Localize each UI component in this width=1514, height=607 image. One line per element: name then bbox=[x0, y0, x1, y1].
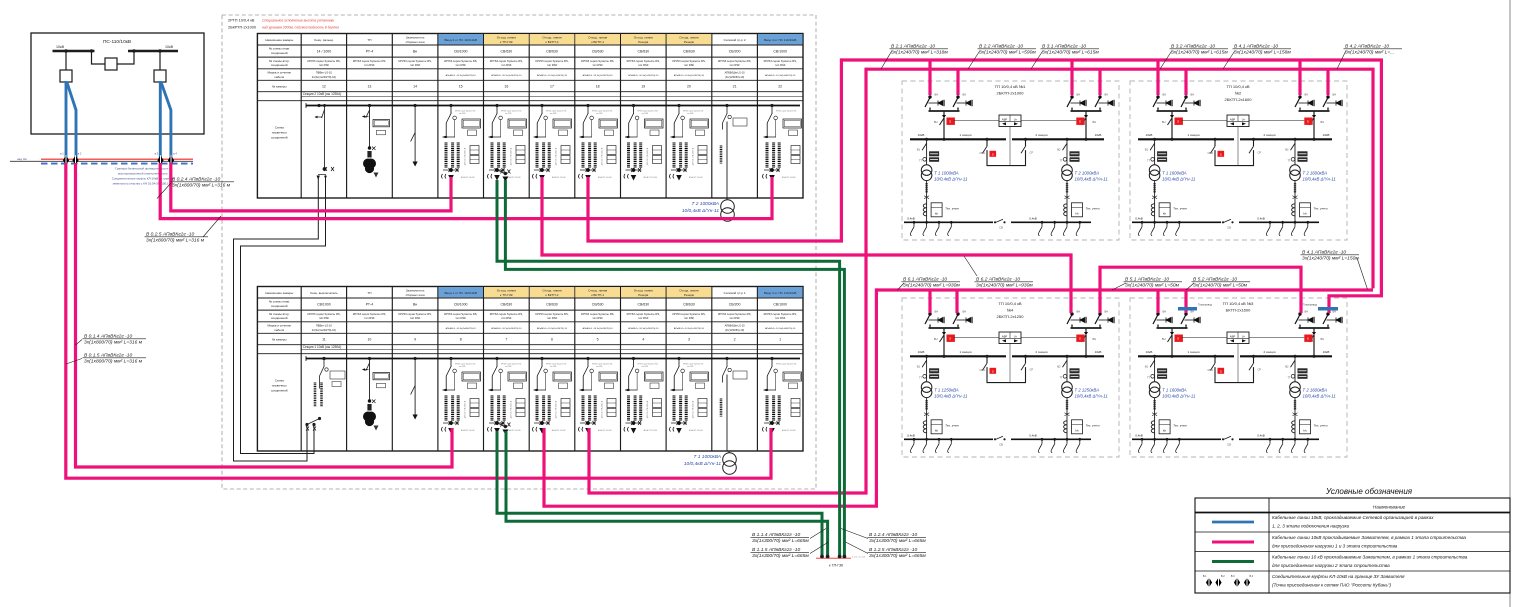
power transformer feeder cell section 1 bbox=[726, 357, 729, 360]
svg-text:КРУ63 серии Systeme RS,: КРУ63 серии Systeme RS, bbox=[535, 59, 568, 63]
joint muff В.1 (connection point) bbox=[63, 155, 69, 165]
svg-text:АВР: АВР bbox=[1002, 117, 1008, 121]
svg-text:ВН: ВН bbox=[1105, 93, 1109, 97]
svg-text:ДЕЛ-10 4 ТА 300-5 А: ДЕЛ-10 4 ТА 300-5 А bbox=[510, 400, 513, 418]
svg-text:в.4: в.4 bbox=[173, 152, 177, 156]
svg-text:к ТП-ГЗК: к ТП-ГЗК bbox=[829, 564, 844, 568]
svg-text:1 секция: 1 секция bbox=[1187, 350, 1199, 354]
svg-text:КРУ63 серии Systeme RS,: КРУ63 серии Systeme RS, bbox=[535, 312, 568, 316]
svg-text:ДЕЛ-10 4 ТА 300-5 А: ДЕЛ-10 4 ТА 300-5 А bbox=[601, 400, 604, 418]
switchgear cell Резерв 2 section 1 bbox=[670, 357, 709, 433]
0.4kV busbars with feeders bbox=[1132, 438, 1221, 440]
svg-text:S: S bbox=[1220, 370, 1222, 374]
svg-text:12: 12 bbox=[322, 85, 326, 89]
svg-text:S: S bbox=[1307, 119, 1309, 123]
svg-text:3х(1х240/70) мм² L=615м: 3х(1х240/70) мм² L=615м bbox=[1171, 50, 1228, 56]
svg-text:СВ/200: СВ/200 bbox=[729, 50, 741, 54]
svg-text:ДЕЛ-10 4 ТА 300-5 А: ДЕЛ-10 4 ТА 300-5 А bbox=[692, 147, 695, 165]
svg-text:тип RSF: тип RSF bbox=[596, 113, 602, 115]
svg-text:тип RSF: тип RSF bbox=[684, 316, 695, 320]
svg-text:КРУ63 серии Systeme RS,: КРУ63 серии Systeme RS, bbox=[764, 59, 797, 63]
bus 10kV sections bbox=[910, 355, 1006, 357]
substation box ТП 10/0,4 кВ №1 bbox=[902, 81, 1119, 240]
svg-text:В1: В1 bbox=[917, 147, 921, 151]
svg-text:ВН: ВН bbox=[1321, 337, 1325, 341]
svg-text:10/0,4кВ Δ/Yн-11: 10/0,4кВ Δ/Yн-11 bbox=[1075, 393, 1109, 398]
pink top run A y=60 bbox=[841, 60, 1381, 313]
svg-text:АПвВКг2г -10 3х(1х240/70)-10: АПвВКг2г -10 3х(1х240/70)-10 bbox=[628, 327, 659, 330]
green cable В 1.2.4 (upper ТП-ГЗК) bbox=[505, 180, 844, 555]
svg-text:Токопровод: Токопровод bbox=[1198, 303, 1212, 307]
label В 4.2 bbox=[1337, 51, 1346, 70]
switch pair links and ВН disconnectors bbox=[1157, 108, 1159, 111]
svg-text:22: 22 bbox=[778, 85, 782, 89]
svg-text:Марка и сечение: Марка и сечение bbox=[268, 71, 292, 75]
svg-text:Т 2 1000кВА: Т 2 1000кВА bbox=[692, 201, 719, 207]
svg-text:КРУ63 серии Systeme RS,: КРУ63 серии Systeme RS, bbox=[581, 312, 614, 316]
pink drops to ТП№1 switches bbox=[928, 60, 931, 95]
svg-text:10/0,4кВ Δ/Yн-11: 10/0,4кВ Δ/Yн-11 bbox=[1303, 393, 1337, 398]
svg-text:S: S bbox=[949, 336, 951, 340]
svg-text:№2: №2 bbox=[1235, 90, 1242, 95]
svg-text:ВН: ВН bbox=[1093, 120, 1097, 124]
svg-text:0,4кВ: 0,4кВ bbox=[1029, 217, 1036, 221]
svg-text:СР: СР bbox=[1030, 367, 1034, 371]
svg-text:19: 19 bbox=[641, 85, 645, 89]
svg-text:S: S bbox=[992, 153, 994, 157]
label В 0.1.4 bbox=[76, 340, 82, 346]
svg-text:к ТП-ГЗК: к ТП-ГЗК bbox=[500, 293, 513, 297]
svg-text:14: 14 bbox=[413, 85, 417, 89]
svg-text:Соединительные муфты КЛ-10кВ н: Соединительные муфты КЛ-10кВ на границе bbox=[112, 177, 175, 181]
svg-text:Ввод 4 от ПС 110/10кВ: Ввод 4 от ПС 110/10кВ bbox=[764, 38, 796, 42]
svg-text:КРУ63 серии Systeme RS,: КРУ63 серии Systeme RS, bbox=[444, 312, 477, 316]
svg-text:КРУ63 серии Systeme RS,: КРУ63 серии Systeme RS, bbox=[398, 59, 431, 63]
joint muff В.2 (connection point) bbox=[72, 155, 78, 165]
svg-text:АВР: АВР bbox=[1230, 334, 1236, 338]
svg-text:3х(1х240/70) мм² L=158м: 3х(1х240/70) мм² L=158м bbox=[1234, 50, 1291, 56]
svg-text:АПвВКг2г -10 3х(1х240/70)-10: АПвВКг2г -10 3х(1х240/70)-10 bbox=[628, 74, 659, 77]
earthing switch cell section 1 bbox=[411, 357, 418, 419]
svg-text:Схема: Схема bbox=[275, 126, 284, 130]
svg-text:20: 20 bbox=[687, 85, 691, 89]
svg-text:0,4кВ: 0,4кВ bbox=[1029, 434, 1036, 438]
bus 10kV sections bbox=[910, 138, 1006, 140]
switchgear table section 2 frame bbox=[257, 34, 803, 199]
Токопровод bar over cable ТП3 left bbox=[1178, 307, 1197, 310]
svg-text:S: S bbox=[992, 370, 994, 374]
svg-text:КРУ63 серии Systeme RS,: КРУ63 серии Systeme RS, bbox=[490, 312, 523, 316]
svg-text:9: 9 bbox=[414, 338, 416, 342]
svg-text:10кВ: 10кВ bbox=[918, 350, 925, 354]
svg-text:тип RSF: тип RSF bbox=[550, 366, 556, 368]
svg-text:АПвВКг2г -10 3х(1х800/70)-10: АПвВКг2г -10 3х(1х800/70)-10 bbox=[446, 327, 477, 330]
svg-text:1: 1 bbox=[779, 338, 781, 342]
svg-text:СР: СР bbox=[1258, 367, 1262, 371]
svg-text:17: 17 bbox=[550, 85, 554, 89]
svg-text:Условные обозначения: Условные обозначения bbox=[1325, 487, 1413, 496]
label В 0.2.5 bbox=[203, 216, 221, 237]
svg-text:Резерв: Резерв bbox=[638, 293, 648, 297]
svg-text:Отход. линия: Отход. линия bbox=[679, 289, 698, 293]
transformer feeders В1/В2 bbox=[1154, 356, 1156, 382]
svg-text:3х(1х240/70) мм² L=930м: 3х(1х240/70) мм² L=930м bbox=[903, 283, 960, 289]
transformer feeders В1/В2 bbox=[926, 356, 928, 382]
svg-text:соединений: соединений bbox=[271, 389, 288, 393]
svg-text:Тех. учет: Тех. учет bbox=[1173, 206, 1187, 210]
svg-text:В2: В2 bbox=[1057, 364, 1061, 368]
switchgear cell ТП-ГЗК section 1 bbox=[488, 357, 527, 433]
svg-text:АВР: АВР bbox=[1002, 334, 1008, 338]
svg-text:В2: В2 bbox=[1285, 147, 1289, 151]
svg-text:10/0,4кВ Δ/Yн-11: 10/0,4кВ Δ/Yн-11 bbox=[1162, 176, 1196, 181]
svg-text:Секция 2 10кВ (сш 1250А): Секция 2 10кВ (сш 1250А) bbox=[303, 92, 342, 96]
svg-text:Тех. учет: Тех. учет bbox=[1086, 206, 1100, 210]
svg-text:тип RSF: тип RSF bbox=[775, 63, 786, 67]
svg-text:СВН: СВН bbox=[1208, 368, 1214, 372]
switchgear table section 1 frame bbox=[257, 287, 803, 452]
svg-text:ВН: ВН bbox=[963, 93, 967, 97]
svg-text:ДЕЛ-10 4 ТА 300-5 А: ДЕЛ-10 4 ТА 300-5 А bbox=[601, 147, 604, 165]
sheet right border bbox=[1509, 0, 1511, 607]
svg-text:2: 2 bbox=[734, 338, 736, 342]
svg-text:ВН: ВН bbox=[1163, 93, 1167, 97]
svg-text:3х(1х800/70) мм² L=316 м: 3х(1х800/70) мм² L=316 м bbox=[172, 183, 231, 189]
svg-text:U<: U< bbox=[1014, 334, 1018, 338]
svg-text:АПвВ КТ-10-240: АПвВ КТ-10-240 bbox=[644, 176, 657, 179]
svg-text:ДЕЛ-10 4 ТА 300-5 А: ДЕЛ-10 4 ТА 300-5 А bbox=[646, 147, 649, 165]
cable КЛ-10кВ В 0.2.4 (pink, ПС В.4 → Ввод 2) bbox=[171, 163, 451, 211]
svg-text:АПвВ КТ-10-240: АПвВ КТ-10-240 bbox=[461, 176, 474, 179]
svg-text:для присоединения нагрузки 1 и: для присоединения нагрузки 1 и 3 этапа с… bbox=[1272, 544, 1398, 549]
svg-text:№4: №4 bbox=[1007, 307, 1014, 312]
svg-text:СВ/630: СВ/630 bbox=[683, 50, 695, 54]
legend blue cable symbol bbox=[1212, 521, 1254, 524]
bus 10kV sections bbox=[1138, 355, 1234, 357]
svg-text:РТ-4: РТ-4 bbox=[366, 50, 373, 54]
svg-text:СР: СР bbox=[1030, 150, 1034, 154]
label В 3.1 bbox=[1031, 51, 1043, 70]
svg-text:U<: U< bbox=[1242, 117, 1246, 121]
svg-text:15: 15 bbox=[459, 85, 463, 89]
svg-text:АПвВКг2г -10 3х(1х240/70)-10: АПвВКг2г -10 3х(1х240/70)-10 bbox=[491, 327, 522, 330]
svg-text:Отход. линия: Отход. линия bbox=[588, 36, 607, 40]
svg-text:соединений: соединений bbox=[271, 136, 288, 140]
svg-text:тип RSF: тип RSF bbox=[410, 316, 421, 320]
svg-text:СВ/1000: СВ/1000 bbox=[454, 303, 468, 307]
svg-text:kh: kh bbox=[1075, 211, 1079, 215]
svg-text:СВ/1000: СВ/1000 bbox=[773, 303, 787, 307]
svg-text:10/0,4кВ Δ/Yн-11: 10/0,4кВ Δ/Yн-11 bbox=[1075, 176, 1109, 181]
green cable В 1.2.5 (lower ТП-ГЗК) bbox=[506, 431, 828, 555]
svg-text:ДЕЛ-10 4 ТА 300-5 А: ДЕЛ-10 4 ТА 300-5 А bbox=[692, 400, 695, 418]
svg-text:Назначение камеры: Назначение камеры bbox=[265, 291, 293, 295]
svg-text:тип RSF: тип RSF bbox=[455, 316, 466, 320]
svg-text:S: S bbox=[1177, 336, 1179, 340]
svg-text:АПВБбШв-LS-10: АПВБбШв-LS-10 bbox=[725, 71, 746, 75]
svg-text:3х(1х240/70) мм² L=150м: 3х(1х240/70) мм² L=150м bbox=[1302, 256, 1359, 262]
svg-text:11: 11 bbox=[322, 338, 326, 342]
svg-text:ВН: ВН bbox=[1105, 310, 1109, 314]
pink drops to ТП№3 left switches bbox=[1156, 290, 1159, 313]
svg-text:АПвВКг2г -10 3х(1х240/70)-10: АПвВКг2г -10 3х(1х240/70)-10 bbox=[537, 74, 568, 77]
svg-text:0,4кВ: 0,4кВ bbox=[907, 434, 914, 438]
svg-text:0,4кВ: 0,4кВ bbox=[1257, 434, 1264, 438]
svg-text:Ввод 3 от ПС 110/10кВ: Ввод 3 от ПС 110/10кВ bbox=[764, 291, 796, 295]
svg-text:тип RSF: тип RSF bbox=[687, 113, 693, 115]
svg-text:СВ/630: СВ/630 bbox=[683, 303, 695, 307]
svg-text:0,4кВ: 0,4кВ bbox=[1135, 434, 1142, 438]
svg-text:Отход. линия: Отход. линия bbox=[588, 289, 607, 293]
svg-text:КРУ63 серии Systeme RS,: КРУ63 серии Systeme RS, bbox=[718, 59, 751, 63]
svg-text:3х(1х240/70) мм² L=318м: 3х(1х240/70) мм² L=318м bbox=[891, 50, 948, 56]
svg-text:ДЕЛ-10 4 ТА 300-5 А: ДЕЛ-10 4 ТА 300-5 А bbox=[464, 400, 467, 418]
voltage transformer cell ТН section 2 bbox=[362, 104, 390, 177]
svg-text:Т 2 1600кВА: Т 2 1600кВА bbox=[1303, 387, 1328, 392]
svg-text:21: 21 bbox=[733, 85, 737, 89]
svg-text:тип RSF: тип RSF bbox=[638, 63, 649, 67]
cell Ввод (right) section 1 bbox=[763, 357, 802, 433]
svg-text:10кВ: 10кВ bbox=[1095, 133, 1102, 137]
svg-text:АПвВ КТ-10-240: АПвВ КТ-10-240 bbox=[552, 176, 565, 179]
svg-text:АПвВ КТ-10-240: АПвВ КТ-10-240 bbox=[507, 429, 520, 432]
svg-text:1 секция: 1 секция bbox=[959, 350, 971, 354]
svg-text:ВН: ВН bbox=[1162, 120, 1166, 124]
svg-text:к БКТП-1: к БКТП-1 bbox=[591, 40, 604, 44]
svg-text:kh: kh bbox=[1303, 211, 1307, 215]
svg-text:ВН: ВН bbox=[1191, 93, 1195, 97]
label В 3.2 bbox=[1160, 51, 1172, 70]
section breaker cell Секц.выключатель (cam.11) bbox=[322, 357, 325, 360]
label В 0.2.4 bbox=[157, 183, 171, 199]
land plot boundary black line bbox=[10, 160, 193, 162]
svg-text:7: 7 bbox=[505, 338, 507, 342]
svg-text:КРУ63 серии Systeme RS,: КРУ63 серии Systeme RS, bbox=[672, 312, 705, 316]
svg-text:ВН: ВН bbox=[935, 93, 939, 97]
svg-text:4 отв. по 100: 4 отв. по 100 bbox=[852, 557, 866, 559]
transformer feeders В1/В2 bbox=[1154, 139, 1156, 165]
svg-text:ВН: ВН bbox=[1162, 337, 1166, 341]
svg-text:СВН: СВН bbox=[980, 151, 986, 155]
cable 10kV blue В.1 bbox=[65, 81, 68, 158]
legend green cable symbol bbox=[1212, 560, 1254, 563]
bus tie СВН-СР loop bbox=[1215, 139, 1254, 165]
svg-text:Т 1 1000кВА: Т 1 1000кВА bbox=[934, 170, 959, 175]
svg-text:ВН: ВН bbox=[1093, 337, 1097, 341]
svg-text:кабеля: кабеля bbox=[274, 328, 284, 332]
main busbar 10kV section 2 bbox=[306, 105, 800, 107]
svg-text:10кВ: 10кВ bbox=[165, 45, 174, 49]
svg-text:тип RSF: тип RSF bbox=[592, 63, 603, 67]
svg-text:тип RSF: тип RSF bbox=[459, 366, 465, 368]
svg-text:СВ: СВ bbox=[999, 225, 1003, 229]
svg-text:Граница балансовой принадлежно: Граница балансовой принадлежности и bbox=[115, 167, 171, 171]
svg-text:3х(1х240/70) мм² L=50м: 3х(1х240/70) мм² L=50м bbox=[1125, 283, 1180, 289]
svg-text:Тех. учет: Тех. учет bbox=[1314, 423, 1328, 427]
svg-text:тип RSF: тип RSF bbox=[550, 113, 556, 115]
cable КЛ-10кВ В 0.2.5 (pink, ПС В.3 → Ввод 4) bbox=[160, 163, 772, 219]
power transformer feeder cell section 2 bbox=[726, 104, 729, 107]
svg-text:2 секция: 2 секция bbox=[1263, 133, 1275, 137]
svg-text:АПвВКг2г -10 3х(1х240/70)-10: АПвВКг2г -10 3х(1х240/70)-10 bbox=[674, 74, 705, 77]
svg-text:kh: kh bbox=[935, 428, 939, 432]
svg-text:kh: kh bbox=[1163, 428, 1167, 432]
cable 10kV blue В.3 bbox=[159, 81, 162, 158]
svg-text:Заземлитель: Заземлитель bbox=[406, 289, 425, 293]
svg-text:3х(1х240/70) мм² L=930м: 3х(1х240/70) мм² L=930м bbox=[976, 283, 1033, 289]
svg-text:КРУ63 серии Systeme RS,: КРУ63 серии Systeme RS, bbox=[307, 59, 340, 63]
svg-text:2РТП 10/0,4 кВ: 2РТП 10/0,4 кВ bbox=[228, 19, 255, 23]
АВР automatic transfer box bbox=[999, 115, 1021, 127]
label В 1.2.4 bbox=[841, 529, 868, 539]
svg-text:Отход. линия: Отход. линия bbox=[634, 289, 653, 293]
svg-text:kh: kh bbox=[1163, 211, 1167, 215]
svg-text:Тех. учет: Тех. учет bbox=[1314, 206, 1328, 210]
label В 4.1 (150м) bbox=[1357, 258, 1367, 289]
svg-text:СР: СР bbox=[1258, 150, 1262, 154]
bus tie СВН-СР loop bbox=[1215, 356, 1254, 382]
svg-text:Отход. линия: Отход. линия bbox=[497, 36, 516, 40]
svg-text:В2: В2 bbox=[1285, 364, 1289, 368]
svg-text:3х(1х300/70) мм² L=665м: 3х(1х300/70) мм² L=665м bbox=[752, 538, 809, 544]
svg-text:Т 1 1250кВА: Т 1 1250кВА bbox=[934, 387, 959, 392]
svg-text:тип RSF: тип RSF bbox=[364, 63, 375, 67]
svg-text:10/0,4кВ Δ/Yн-11: 10/0,4кВ Δ/Yн-11 bbox=[684, 461, 721, 467]
svg-text:Марка и сечение: Марка и сечение bbox=[268, 324, 292, 328]
svg-text:СВ/1000: СВ/1000 bbox=[317, 303, 331, 307]
pink top run B y=69 bbox=[866, 69, 1373, 288]
svg-text:ТП 10/0,4 кВ №3: ТП 10/0,4 кВ №3 bbox=[1223, 301, 1254, 306]
svg-text:Т 2 1000кВА: Т 2 1000кВА bbox=[1075, 170, 1100, 175]
svg-text:В1: В1 bbox=[1145, 364, 1149, 368]
bus tie wire A between sections bbox=[234, 176, 319, 461]
substation ПС-110/10кВ outline bbox=[31, 33, 204, 134]
svg-text:Т 1 1000кВА: Т 1 1000кВА bbox=[694, 454, 721, 460]
svg-text:СВ/630: СВ/630 bbox=[637, 303, 649, 307]
incoming switches with arresters bbox=[925, 312, 944, 326]
svg-text:тип RSF: тип RSF bbox=[642, 366, 648, 368]
АВР automatic transfer box bbox=[999, 332, 1021, 344]
svg-text:Резерв: Резерв bbox=[638, 40, 648, 44]
svg-text:КРУ63 серии Systeme RS,: КРУ63 серии Systeme RS, bbox=[353, 312, 386, 316]
svg-text:АПвВКг2г -10 3х(1х240/70)-10: АПвВКг2г -10 3х(1х240/70)-10 bbox=[491, 74, 522, 77]
switchgear cell БКТП-4 section 2 bbox=[533, 104, 572, 180]
bus tie wire B between sections bbox=[241, 176, 326, 454]
svg-text:БКТП-2х1600: БКТП-2х1600 bbox=[1226, 307, 1252, 312]
svg-text:Кабельные линии 10кВ прокладыв: Кабельные линии 10кВ прокладываемые Заяв… bbox=[1272, 535, 1466, 540]
svg-text:к БКТП-4: к БКТП-4 bbox=[546, 293, 559, 297]
svg-text:10кВ: 10кВ bbox=[1146, 350, 1153, 354]
svg-text:3х(1х300/70) мм² L=665м: 3х(1х300/70) мм² L=665м bbox=[869, 538, 926, 544]
svg-text:тип RSF: тип RSF bbox=[642, 113, 648, 115]
label В 1.2.5 bbox=[846, 542, 869, 554]
joint muff В.3 (connection point) bbox=[157, 155, 163, 165]
svg-text:АПвВ КТ-10-800: АПвВ КТ-10-800 bbox=[782, 176, 795, 179]
svg-text:2 секция: 2 секция bbox=[1035, 133, 1047, 137]
svg-text:kh: kh bbox=[935, 211, 939, 215]
svg-text:10/0,4кВ Δ/Yн-11: 10/0,4кВ Δ/Yн-11 bbox=[934, 393, 968, 398]
label В 1.1.4 bbox=[810, 529, 826, 539]
svg-text:3х(1х800/70) мм² L=316 м: 3х(1х800/70) мм² L=316 м bbox=[146, 238, 205, 244]
svg-text:10кВ: 10кВ bbox=[1323, 350, 1330, 354]
svg-text:№ камеры: № камеры bbox=[272, 85, 287, 89]
svg-text:2БКРТП-2х1000: 2БКРТП-2х1000 bbox=[228, 26, 256, 30]
svg-text:ВН: ВН bbox=[1333, 93, 1337, 97]
svg-text:СВ: СВ bbox=[1227, 225, 1231, 229]
svg-text:Силовой тр-р 1: Силовой тр-р 1 bbox=[724, 291, 746, 295]
switchgear cell БКТП-1 section 1 bbox=[579, 357, 618, 433]
pink drops to ТП№2 switches bbox=[1156, 60, 1159, 95]
svg-text:тип RSF: тип RSF bbox=[547, 63, 558, 67]
svg-text:ТН: ТН bbox=[367, 38, 371, 42]
svg-text:над 3м: над 3м bbox=[17, 157, 27, 161]
svg-text:0,4кВ: 0,4кВ bbox=[1257, 217, 1264, 221]
svg-text:1 секция: 1 секция bbox=[959, 133, 971, 137]
svg-text:СВ/630: СВ/630 bbox=[501, 303, 513, 307]
svg-text:3х(1х300/70) мм² L=665м: 3х(1х300/70) мм² L=665м bbox=[752, 553, 809, 559]
svg-text:к БКТП-4: к БКТП-4 bbox=[546, 40, 559, 44]
svg-text:ВН: ВН bbox=[963, 310, 967, 314]
svg-text:КРУ63 серии Systeme RS,: КРУ63 серии Systeme RS, bbox=[490, 59, 523, 63]
svg-text:КРУ63 серии Systeme RS,: КРУ63 серии Systeme RS, bbox=[718, 312, 751, 316]
earthing switch cell section 2 bbox=[411, 104, 418, 166]
substation box ТП 10/0,4 кВ №3 bbox=[1130, 298, 1347, 457]
switchgear cell БКТП-4 section 1 bbox=[533, 357, 572, 433]
svg-text:ДЕЛ-10 4 ТА 300-5 А: ДЕЛ-10 4 ТА 300-5 А bbox=[510, 147, 513, 165]
svg-text:КРУ63 серии Systeme RS,: КРУ63 серии Systeme RS, bbox=[764, 312, 797, 316]
svg-text:3х(1х240/70) мм² L=615м: 3х(1х240/70) мм² L=615м bbox=[1042, 50, 1099, 56]
svg-text:тип RSF: тип RSF bbox=[547, 316, 558, 320]
svg-text:Ввод 2 от ПС 110/10кВ: Ввод 2 от ПС 110/10кВ bbox=[444, 38, 476, 42]
bus section label Секция 1 10кВ (сш 1250А) bbox=[301, 349, 803, 351]
svg-text:СВ/630: СВ/630 bbox=[546, 303, 558, 307]
svg-text:тип RSF: тип RSF bbox=[729, 316, 740, 320]
svg-text:земельного участка с КН 01:04:: земельного участка с КН 01:04:5901001:31… bbox=[112, 182, 173, 186]
second cable tail on ТП-ГЗК cell section 2 bbox=[500, 170, 510, 174]
svg-text:2 секция: 2 секция bbox=[1035, 350, 1047, 354]
svg-text:АПвВ КТ-10-800: АПвВ КТ-10-800 bbox=[782, 429, 795, 432]
svg-text:АПвВКг2г -10 3х(1х800/70)-10: АПвВКг2г -10 3х(1х800/70)-10 bbox=[765, 74, 796, 77]
svg-text:КРУ63 серии Systeme RS,: КРУ63 серии Systeme RS, bbox=[307, 312, 340, 316]
svg-text:S: S bbox=[1177, 119, 1179, 123]
svg-text:S: S bbox=[1220, 153, 1222, 157]
cable 10kV blue В.2 bbox=[67, 82, 76, 158]
svg-text:ВН: ВН bbox=[1077, 310, 1081, 314]
legend pink cable symbol bbox=[1212, 541, 1254, 544]
svg-text:КРУ63 серии Systeme RS,: КРУ63 серии Systeme RS, bbox=[581, 59, 614, 63]
breaker В3/В4 feeder square right bbox=[159, 51, 161, 70]
svg-text:АПвВ КТ-10-240: АПвВ КТ-10-240 bbox=[644, 429, 657, 432]
svg-text:над уровнем 2000м, сейсмостойк: над уровнем 2000м, сейсмостойкость 8 бал… bbox=[262, 26, 339, 30]
svg-text:АПвВ КТ-10-240: АПвВ КТ-10-240 bbox=[552, 429, 565, 432]
pink mid run y=290 to ТП№4/№3 left switches bbox=[876, 288, 1373, 291]
switch pair links and ВН disconnectors bbox=[1157, 325, 1159, 328]
svg-text:тип RSF: тип RSF bbox=[729, 63, 740, 67]
svg-text:ТП 10/0,4 кВ: ТП 10/0,4 кВ bbox=[998, 301, 1021, 306]
incoming switches with arresters bbox=[925, 95, 944, 109]
svg-text:Секц. выключатель: Секц. выключатель bbox=[310, 291, 338, 295]
switch pair links and ВН disconnectors bbox=[929, 325, 931, 328]
svg-text:Токопровод: Токопровод bbox=[1303, 303, 1317, 307]
svg-text:ВН: ВН bbox=[1077, 93, 1081, 97]
0.4kV busbars with feeders bbox=[1132, 221, 1221, 223]
svg-text:U<: U< bbox=[1242, 334, 1246, 338]
svg-text:Назначение камеры: Назначение камеры bbox=[265, 38, 293, 42]
switchgear cell Ввод section 2 bbox=[442, 104, 481, 180]
pink link ТП№4 sw4 – ТП№3 sw5 y=267 bbox=[1100, 267, 1301, 313]
svg-text:Кабельные линии 10кВ, проклады: Кабельные линии 10кВ, прокладываемые Сет… bbox=[1272, 514, 1434, 520]
svg-text:ДЕЛ-10 4 ТА 300-5 А: ДЕЛ-10 4 ТА 300-5 А bbox=[555, 147, 558, 165]
